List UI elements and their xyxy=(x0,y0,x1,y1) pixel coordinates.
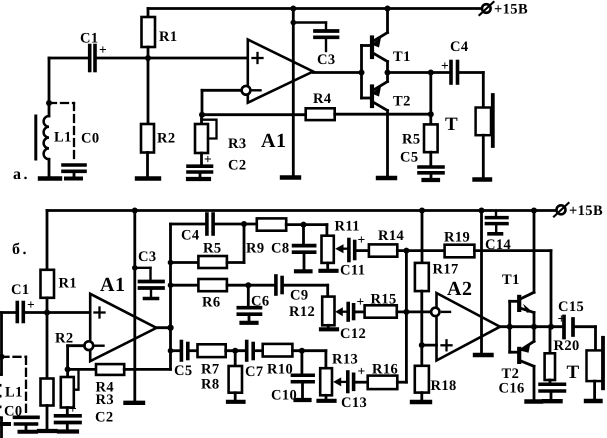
ground under C0 xyxy=(20,430,37,434)
svg-text:T: T xyxy=(445,114,458,135)
svg-text:R14: R14 xyxy=(378,228,404,244)
capacitor C2 xyxy=(56,401,114,429)
svg-text:C8: C8 xyxy=(271,241,290,257)
wire feedback to R4 xyxy=(202,113,306,116)
wire R4 to output node xyxy=(335,113,431,116)
ground under op-amp A1 xyxy=(126,401,144,405)
svg-text:A2: A2 xyxy=(447,278,472,300)
wire + input xyxy=(419,342,425,348)
resistor R19 xyxy=(444,230,474,258)
wire base link vertical T1 T2 xyxy=(508,301,511,352)
wire R19 to output feedback xyxy=(474,249,551,252)
wire T1 emitter to output xyxy=(533,313,536,327)
wire output node to C4 xyxy=(388,71,449,74)
wire op-amp output xyxy=(313,71,361,74)
wire base link vertical xyxy=(360,46,363,99)
wire C4 to phone xyxy=(460,71,483,74)
ground under T2 xyxy=(378,176,395,180)
svg-text:R2: R2 xyxy=(157,131,176,147)
svg-text:A1: A1 xyxy=(261,130,286,152)
svg-text:б.: б. xyxy=(12,241,29,258)
svg-text:+15В: +15В xyxy=(569,203,603,219)
svg-text:R13: R13 xyxy=(332,352,358,368)
wire A1 output xyxy=(156,326,170,329)
svg-text:+: + xyxy=(357,294,365,309)
capacitor C0 (dashed connection) xyxy=(49,103,100,176)
svg-text:C2: C2 xyxy=(95,410,114,426)
resistor R9 xyxy=(246,218,327,256)
capacitor C4 xyxy=(441,39,469,83)
wire input left drop xyxy=(48,58,51,103)
ground under C8 xyxy=(296,269,311,273)
wire +15V rail (top) xyxy=(148,7,482,10)
wire phone to ground xyxy=(482,135,485,177)
svg-text:C10: C10 xyxy=(271,388,297,404)
wire A2 output xyxy=(500,325,561,328)
wire T2 emitter to output xyxy=(533,327,536,342)
svg-text:C5: C5 xyxy=(400,150,419,166)
capacitor C6 xyxy=(238,285,269,320)
capacitor C13 xyxy=(341,364,367,412)
svg-text:T: T xyxy=(567,362,580,383)
ground under R2 xyxy=(39,429,56,433)
capacitor C14 xyxy=(485,211,511,254)
ground under R11 xyxy=(321,269,337,273)
resistor R14 xyxy=(357,228,405,257)
wire branch1 xyxy=(171,223,205,226)
svg-text:R6: R6 xyxy=(202,295,221,311)
svg-text:R10: R10 xyxy=(267,362,293,378)
svg-text:C16: C16 xyxy=(499,381,525,397)
capacitor C0 (dashed connection) xyxy=(2,357,39,430)
svg-text:T1: T1 xyxy=(502,272,520,288)
capacitor C9 xyxy=(276,276,309,304)
resistor R7 xyxy=(190,344,245,377)
ground under R12 xyxy=(321,327,337,331)
wire inverting input xyxy=(202,89,242,92)
svg-text:а.: а. xyxy=(13,166,30,183)
wire to R4 xyxy=(68,368,96,371)
wire T1 collector to rail xyxy=(386,9,389,33)
svg-text:C15: C15 xyxy=(558,299,584,315)
wire input node xyxy=(2,311,16,314)
ground under phone xyxy=(586,399,601,403)
phone T (earphone) xyxy=(445,95,493,146)
trimmer R3 xyxy=(61,369,114,414)
resistor R18 xyxy=(415,345,457,399)
resistor R20 xyxy=(545,327,580,380)
ground under C16 xyxy=(544,399,561,403)
capacitor C1 xyxy=(11,282,35,322)
inductor L1 (clipped at edge) xyxy=(0,375,23,438)
svg-text:L1: L1 xyxy=(5,385,23,401)
transistor T2 xyxy=(502,341,535,382)
resistor R4 xyxy=(306,91,335,120)
trimmer R12 xyxy=(289,297,346,327)
capacitor C11 xyxy=(340,232,365,279)
svg-text:C1: C1 xyxy=(80,31,99,47)
svg-text:R3: R3 xyxy=(96,392,115,408)
wire T2 collector to ground xyxy=(533,366,536,398)
ground under C10 xyxy=(296,398,310,402)
trimmer R3 xyxy=(195,115,247,153)
trimmer R11 xyxy=(322,219,360,269)
svg-text:R12: R12 xyxy=(289,304,315,320)
ground under phone xyxy=(475,177,491,181)
capacitor C15 xyxy=(558,299,585,338)
wire output vertical (filter feed) xyxy=(169,224,172,369)
svg-text:R7: R7 xyxy=(201,362,220,378)
svg-text:C11: C11 xyxy=(340,263,365,279)
wire left drop xyxy=(0,313,3,375)
svg-text:R17: R17 xyxy=(433,262,459,278)
ground under C2 xyxy=(188,177,209,181)
capacitor C3 xyxy=(132,249,163,299)
wire branch3 xyxy=(171,349,180,352)
wire inverting input xyxy=(68,344,85,347)
inductor L1 xyxy=(36,103,72,177)
transistor T1 xyxy=(502,272,534,313)
wire T1 collector to rail xyxy=(533,211,536,293)
resistor R10 xyxy=(255,344,326,378)
wire op-amp A1 power vertical xyxy=(133,211,136,401)
svg-text:R18: R18 xyxy=(431,378,457,394)
svg-text:+: + xyxy=(204,152,212,167)
resistor R2 xyxy=(141,58,176,177)
ground under C6 xyxy=(242,321,257,325)
wire +15V rail (bottom) xyxy=(47,209,556,212)
svg-text:C13: C13 xyxy=(341,395,367,411)
ground under C0 xyxy=(66,177,81,181)
svg-text:+: + xyxy=(27,297,35,312)
capacitor C12 xyxy=(340,294,366,342)
svg-text:R3: R3 xyxy=(228,136,247,152)
capacitor C4 xyxy=(181,214,213,244)
ground under R2 xyxy=(137,176,159,180)
wire T2 collector to ground xyxy=(386,111,389,177)
resistor R16 xyxy=(356,362,399,390)
transistor T2 xyxy=(372,82,411,111)
svg-text:+: + xyxy=(441,58,449,73)
ground under C5 xyxy=(424,178,439,182)
node L1/C0 xyxy=(46,100,52,106)
ground under R13 xyxy=(319,399,335,403)
wire R15 to inverting input xyxy=(397,310,431,313)
wire C15 to phone xyxy=(575,325,596,328)
op-amp A2 xyxy=(431,278,500,361)
resistor R8 xyxy=(201,351,242,400)
op-amp A1 xyxy=(84,274,156,361)
ground under A2 xyxy=(475,353,492,357)
wire T2 emitter to output node xyxy=(386,73,389,82)
svg-text:C4: C4 xyxy=(450,39,469,55)
svg-text:T2: T2 xyxy=(393,94,411,110)
resistor R1 xyxy=(142,9,178,59)
capacitor C16 xyxy=(499,380,565,398)
ground under R18 xyxy=(412,400,430,404)
phone T (earphone) xyxy=(567,338,604,389)
wire C4 to R9 xyxy=(215,223,257,226)
svg-text:R4: R4 xyxy=(313,91,332,107)
ground under L1 xyxy=(0,422,9,426)
svg-text:R11: R11 xyxy=(335,219,360,235)
svg-text:R19: R19 xyxy=(444,230,470,246)
ground under op-amp A1 xyxy=(282,175,299,179)
wire op-amp power vertical xyxy=(292,9,295,176)
ground under L1 xyxy=(40,176,60,180)
ground under C2 xyxy=(59,429,77,433)
svg-text:R16: R16 xyxy=(372,362,398,378)
wire R16 up to inverting node xyxy=(397,381,406,384)
resistor R6 xyxy=(171,279,274,311)
svg-text:R5: R5 xyxy=(203,241,222,257)
wire input node y=58 xyxy=(49,57,88,60)
op-amp A1 xyxy=(242,40,314,153)
capacitor C2 xyxy=(188,152,247,178)
svg-text:R1: R1 xyxy=(159,29,178,45)
capacitor C7 xyxy=(245,342,264,381)
svg-text:C7: C7 xyxy=(245,364,264,380)
resistor R5 xyxy=(402,73,438,153)
capacitor C8 xyxy=(271,225,315,269)
wire T1 emitter to output node xyxy=(386,62,389,73)
svg-text:C9: C9 xyxy=(290,288,309,304)
svg-text:C3: C3 xyxy=(317,52,336,68)
svg-text:C14: C14 xyxy=(485,237,511,253)
svg-text:C0: C0 xyxy=(4,404,23,420)
svg-text:R20: R20 xyxy=(554,338,580,354)
resistor R4 xyxy=(96,364,125,395)
capacitor C5 xyxy=(400,150,443,179)
capacitor C5 xyxy=(174,342,193,380)
svg-text:L1: L1 xyxy=(54,130,72,146)
ground under R8 xyxy=(228,400,244,404)
svg-text:C5: C5 xyxy=(174,363,193,379)
capacitor C10 xyxy=(271,351,313,404)
transistor T1 xyxy=(372,33,411,66)
svg-text:C12: C12 xyxy=(340,326,366,342)
svg-text:C1: C1 xyxy=(11,282,30,298)
svg-text:C6: C6 xyxy=(251,294,270,310)
svg-text:C0: C0 xyxy=(81,131,100,147)
svg-text:R5: R5 xyxy=(402,132,421,148)
resistor R1 xyxy=(41,211,78,313)
svg-text:A1: A1 xyxy=(100,274,125,296)
ground under T2 xyxy=(527,399,542,403)
resistor R15 xyxy=(356,292,397,318)
wire R14 to inverting node and R19 xyxy=(397,249,444,252)
resistor R17 xyxy=(415,208,459,346)
capacitor C3 xyxy=(291,20,338,68)
svg-text:C2: C2 xyxy=(228,158,247,174)
svg-text:R9: R9 xyxy=(246,241,265,257)
svg-text:+: + xyxy=(358,232,366,247)
svg-text:R2: R2 xyxy=(55,331,74,347)
svg-text:R1: R1 xyxy=(59,276,78,292)
wire op-amp A2 power vertical xyxy=(480,211,483,353)
svg-text:R15: R15 xyxy=(371,292,397,308)
svg-text:+15В: +15В xyxy=(494,2,528,18)
node junction R1/R2 xyxy=(145,55,151,61)
svg-text:+: + xyxy=(69,401,77,416)
svg-text:C4: C4 xyxy=(181,228,200,244)
wire R4 to output vertical xyxy=(124,368,170,371)
svg-text:+: + xyxy=(99,42,107,57)
resistor R5 xyxy=(171,224,245,268)
trimmer R13 xyxy=(320,351,358,399)
svg-text:+: + xyxy=(358,364,366,379)
terminal +15V circuit a xyxy=(480,2,529,18)
svg-text:R8: R8 xyxy=(201,377,220,393)
capacitor C1 xyxy=(80,31,107,71)
wire C9 to R12 xyxy=(284,284,328,287)
terminal +15V circuit b xyxy=(554,203,603,219)
svg-text:C3: C3 xyxy=(138,249,157,265)
resistor R2 xyxy=(41,313,74,430)
wire phone to ground xyxy=(593,381,596,398)
svg-text:T1: T1 xyxy=(393,49,411,65)
